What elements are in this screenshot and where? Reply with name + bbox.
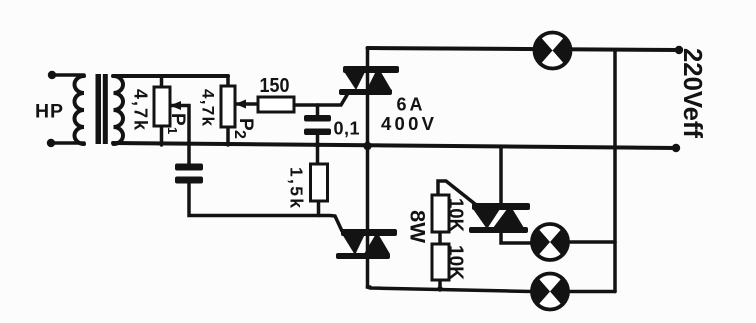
- svg-text:HP: HP: [35, 101, 63, 123]
- svg-text:1: 1: [165, 127, 180, 134]
- svg-text:400V: 400V: [381, 113, 435, 134]
- svg-text:10K: 10K: [445, 245, 467, 281]
- svg-text:1,5k: 1,5k: [287, 167, 307, 208]
- svg-text:220Veff: 220Veff: [678, 48, 708, 138]
- svg-text:4,7k: 4,7k: [131, 89, 151, 131]
- svg-text:10K: 10K: [445, 198, 467, 233]
- svg-text:P: P: [167, 113, 188, 126]
- svg-text:6A: 6A: [397, 95, 423, 115]
- svg-text:8W: 8W: [406, 210, 430, 244]
- svg-text:2: 2: [231, 130, 248, 139]
- svg-text:4,7k: 4,7k: [199, 89, 218, 127]
- svg-text:150: 150: [260, 74, 290, 97]
- svg-text:0,1: 0,1: [334, 119, 360, 139]
